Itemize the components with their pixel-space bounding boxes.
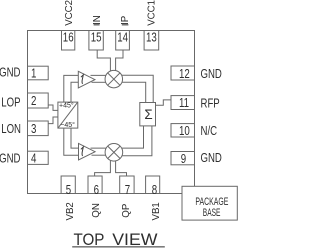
svg-text:VCC2: VCC2 [64,0,75,26]
svg-text:GND: GND [0,152,21,166]
svg-text:IP: IP [120,16,131,25]
pin box 6 [88,176,102,194]
bottom rotated labels [65,202,162,220]
svg-text:14: 14 [117,30,128,45]
wire pin14 to mixer M1 top [116,50,123,71]
svg-text:4: 4 [31,151,37,166]
mixer M2 [105,144,123,162]
package base box [182,186,237,220]
svg-text:6: 6 [94,183,99,198]
sigma box U1 [140,103,156,126]
amp A1 [78,71,95,88]
svg-text:LOP: LOP [1,96,21,110]
wire pin15 to mixer M1 top [97,50,110,71]
svg-text:15: 15 [91,30,102,45]
wire sigma to pin11 RFP [156,100,172,105]
pin box 5 [61,176,75,194]
svg-text:BASE: BASE [203,206,221,218]
svg-text:11: 11 [179,96,189,111]
right pin labels [201,68,222,166]
svg-text:9: 9 [181,152,186,167]
svg-text:VB1: VB1 [151,202,162,220]
svg-text:12: 12 [179,67,190,82]
pin box 16 [62,31,75,51]
svg-text:VCC1: VCC1 [147,0,158,26]
mixer M1 X [108,73,120,85]
wire mixer M1 outputs to sigma top [121,75,154,102]
wire pin6 to mixer M2 bottom [95,161,111,176]
svg-text:RFP: RFP [201,97,221,111]
svg-text:8: 8 [152,183,157,198]
svg-text:IN: IN [92,15,103,25]
amp A1 gain label [81,75,83,84]
mixer M2 X [108,146,120,158]
mixer M1 [105,70,123,88]
phase shifter diagonal [58,102,77,127]
svg-text:10: 10 [179,123,190,138]
svg-text:TOP: TOP [74,231,105,249]
wire mixer M2 outputs to sigma bottom [121,126,144,148]
top rotated labels [64,0,158,26]
pin box 11 [171,96,195,110]
pin box 10 [171,124,195,137]
svg-text:Σ: Σ [144,107,152,122]
svg-text:−45°: −45° [60,121,75,129]
svg-text:13: 13 [146,30,157,45]
pin box 14 [116,31,130,51]
svg-text:GND: GND [201,152,222,166]
svg-text:LON: LON [1,123,21,137]
svg-text:5: 5 [66,183,71,198]
wire phase shifter top to amp A1 lower input [71,82,78,102]
svg-text:QP: QP [121,204,132,218]
svg-text:7: 7 [125,183,130,198]
svg-text:QN: QN [91,203,102,218]
overbar IP [122,24,129,26]
svg-text:GND: GND [0,66,21,80]
pin box 3 [28,121,49,136]
svg-text:N/C: N/C [201,125,218,139]
svg-text:VB2: VB2 [65,202,76,220]
wire pin2 LOP to phase shifter [48,105,58,110]
pin box 4 [28,151,49,164]
left pin labels [0,66,21,166]
amp A2 gain label [81,147,83,156]
wire pin3 LON to phase shifter [48,117,58,124]
chip outline [28,31,195,194]
wire pin7 to mixer M2 bottom [116,161,127,176]
pin box 13 [144,31,159,51]
pin box 15 [89,31,103,51]
amp A2 [79,143,96,160]
pin box 1 [28,66,49,80]
svg-text:+45°: +45° [59,102,74,110]
svg-text:GND: GND [201,68,222,82]
svg-text:16: 16 [63,30,74,45]
svg-text:VIEW: VIEW [112,230,158,248]
overbar IN [94,24,100,26]
pin box 8 [146,176,160,194]
pin box 2 [28,93,49,108]
phase shifter box [58,102,78,128]
svg-text:2: 2 [31,94,36,109]
pin box 7 [120,176,134,194]
wire phase shifter bottom to amp A2 lower input [64,128,79,155]
title underline [72,246,165,248]
svg-text:1: 1 [31,66,36,81]
pin box 12 [171,66,195,80]
wire phase shifter bottom to amp A2 upper input [71,128,79,148]
wire amp A1 output pair to mixer M1 [91,74,108,76]
wire phase shifter top to amp A1 upper input [64,75,79,102]
wire amp A2 output pair to mixer M2 [91,147,108,149]
pin box 9 [171,152,195,165]
svg-text:3: 3 [31,121,36,136]
